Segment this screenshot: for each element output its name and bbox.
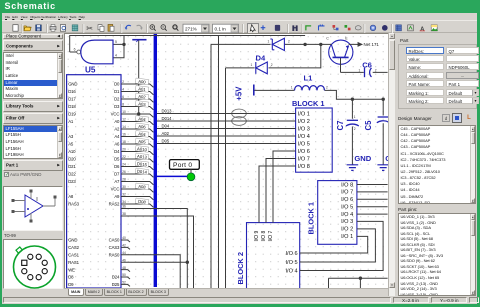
svg-text:48: 48 — [122, 266, 126, 270]
svg-text:D23: D23 — [68, 179, 76, 184]
svg-text:RAS2: RAS2 — [109, 202, 120, 207]
svg-text:BLOCK 1: BLOCK 1 — [292, 99, 324, 108]
svg-text:D22: D22 — [68, 172, 76, 177]
svg-text:2: 2 — [122, 80, 124, 84]
svg-text:CAS0: CAS0 — [109, 238, 120, 243]
svg-text:CAS1: CAS1 — [68, 253, 79, 258]
svg-text:10: 10 — [122, 110, 126, 114]
svg-text:6: 6 — [74, 47, 76, 51]
svg-text:D013: D013 — [162, 108, 173, 113]
svg-text:D3: D3 — [114, 104, 120, 109]
svg-text:2: 2 — [354, 127, 356, 131]
svg-text:A02: A02 — [162, 131, 170, 136]
svg-text:D18: D18 — [68, 104, 76, 109]
svg-text:I/O 9: I/O 9 — [254, 230, 260, 241]
svg-text:2: 2 — [326, 86, 328, 90]
svg-text:U5: U5 — [85, 66, 96, 75]
svg-text:36: 36 — [122, 205, 126, 209]
svg-text:A0: A0 — [114, 119, 120, 124]
svg-text:VCC: VCC — [111, 112, 120, 117]
svg-text:D16: D16 — [68, 89, 76, 94]
svg-text:D08: D08 — [138, 199, 147, 205]
svg-text:42: 42 — [122, 244, 126, 248]
svg-text:RAS0: RAS0 — [109, 253, 120, 258]
svg-text:40: 40 — [122, 236, 126, 240]
svg-text:I/O 2: I/O 2 — [341, 227, 353, 233]
svg-text:C6: C6 — [362, 61, 372, 70]
svg-text:1: 1 — [291, 86, 293, 90]
svg-text:16: 16 — [122, 133, 126, 137]
svg-text:32: 32 — [122, 193, 126, 197]
svg-text:C7: C7 — [336, 121, 345, 131]
svg-text:0.1 in: 0.1 in — [215, 26, 227, 31]
svg-text:✂: ✂ — [86, 24, 93, 33]
svg-text:D014: D014 — [162, 116, 173, 121]
svg-text:+5V: +5V — [235, 86, 244, 101]
svg-text:A3: A3 — [68, 134, 74, 139]
svg-text:5: 5 — [115, 40, 117, 44]
svg-text:8: 8 — [122, 103, 124, 107]
svg-text:D4: D4 — [114, 149, 120, 154]
svg-text:Port 0: Port 0 — [173, 162, 192, 169]
svg-text:D0: D0 — [114, 82, 120, 87]
svg-text:A06: A06 — [138, 124, 147, 130]
svg-text:C: C — [326, 37, 329, 41]
svg-text:I/O 4: I/O 4 — [285, 268, 297, 274]
svg-text:1: 1 — [251, 63, 253, 67]
svg-text:1: 1 — [354, 115, 356, 119]
svg-text:28: 28 — [122, 178, 126, 182]
svg-text:I/O 8: I/O 8 — [261, 230, 267, 241]
svg-text:A01: A01 — [138, 86, 147, 92]
svg-text:22: 22 — [122, 155, 126, 159]
svg-text:D17: D17 — [68, 97, 76, 102]
svg-text:2: 2 — [375, 69, 377, 73]
svg-text:50: 50 — [122, 273, 126, 277]
svg-text:24: 24 — [122, 163, 126, 167]
svg-text:D1: D1 — [114, 89, 120, 94]
svg-text:271%: 271% — [185, 26, 197, 31]
svg-text:A6: A6 — [114, 142, 120, 147]
svg-text:I/O 7: I/O 7 — [298, 156, 310, 162]
svg-text:38: 38 — [122, 212, 126, 216]
svg-text:GND: GND — [68, 238, 77, 243]
svg-text:CAS3: CAS3 — [109, 245, 120, 250]
svg-text:I/O 5: I/O 5 — [341, 205, 353, 211]
svg-text:4: 4 — [115, 54, 117, 58]
svg-text:I/O 6: I/O 6 — [298, 149, 310, 155]
svg-text:I/O 7: I/O 7 — [341, 190, 353, 196]
svg-text:46: 46 — [122, 258, 126, 262]
svg-text:12: 12 — [122, 118, 126, 122]
svg-text:A9: A9 — [114, 194, 120, 199]
svg-text:D5: D5 — [114, 157, 120, 162]
svg-text:A7: A7 — [114, 179, 120, 184]
svg-text:I/O 5: I/O 5 — [298, 141, 310, 147]
svg-text:A02: A02 — [138, 94, 147, 100]
svg-text:A05: A05 — [138, 139, 147, 145]
svg-text:1: 1 — [359, 69, 361, 73]
svg-text:D19: D19 — [68, 112, 76, 117]
svg-text:A5: A5 — [68, 142, 74, 147]
svg-text:I/O 6: I/O 6 — [341, 197, 353, 203]
svg-text:A8: A8 — [68, 194, 74, 199]
svg-text:4: 4 — [122, 88, 124, 92]
svg-text:1: 1 — [268, 40, 270, 44]
svg-text:VCC: VCC — [111, 187, 120, 192]
svg-text:2: 2 — [271, 63, 273, 67]
svg-text:A10: A10 — [68, 149, 76, 154]
svg-text:I/O 4: I/O 4 — [341, 212, 353, 218]
svg-text:A: A — [420, 26, 424, 32]
svg-text:I/O 3: I/O 3 — [341, 219, 353, 225]
svg-text:C5: C5 — [364, 120, 373, 131]
svg-text:A00: A00 — [138, 79, 147, 85]
svg-text:14: 14 — [122, 125, 126, 129]
svg-text:2: 2 — [288, 40, 290, 44]
svg-text:I/O 8: I/O 8 — [341, 182, 353, 188]
svg-text:A4: A4 — [114, 134, 120, 139]
svg-text:D20: D20 — [68, 157, 76, 162]
svg-text:A1: A1 — [68, 119, 74, 124]
svg-text:A2: A2 — [114, 127, 120, 132]
svg-text:D04: D04 — [162, 123, 170, 128]
svg-text:RAS1: RAS1 — [68, 260, 79, 265]
svg-text:34: 34 — [122, 200, 126, 204]
svg-text:I/O 1: I/O 1 — [341, 234, 353, 240]
svg-text:WE: WE — [68, 267, 75, 272]
svg-text:I/O 4: I/O 4 — [298, 134, 310, 140]
svg-text:I/O 1: I/O 1 — [298, 111, 310, 117]
svg-text:BLOCK 2: BLOCK 2 — [236, 252, 245, 284]
svg-text:D21: D21 — [68, 164, 76, 169]
svg-text:L1: L1 — [304, 73, 314, 82]
svg-text:RAS3: RAS3 — [68, 202, 79, 207]
svg-text:A04: A04 — [138, 131, 147, 137]
svg-text:D25: D25 — [112, 282, 120, 287]
svg-text:I/O 2: I/O 2 — [298, 119, 310, 125]
svg-text:GND: GND — [68, 82, 77, 87]
svg-text:52: 52 — [122, 281, 126, 285]
svg-text:I/O 8: I/O 8 — [298, 164, 310, 170]
svg-text:Net 171: Net 171 — [364, 42, 380, 47]
svg-text:I/O 3: I/O 3 — [298, 126, 310, 132]
svg-text:D7: D7 — [114, 172, 120, 177]
svg-text:D2: D2 — [114, 97, 120, 102]
svg-text:I/O 7: I/O 7 — [268, 230, 274, 241]
svg-text:44: 44 — [122, 251, 126, 255]
svg-text:18: 18 — [122, 140, 126, 144]
svg-text:I/O 6: I/O 6 — [285, 251, 297, 257]
svg-text:I/O 5: I/O 5 — [285, 260, 297, 266]
svg-text:D05: D05 — [162, 138, 170, 143]
svg-text:A03: A03 — [138, 101, 147, 107]
svg-text:6: 6 — [122, 95, 124, 99]
svg-text:30: 30 — [122, 185, 126, 189]
svg-text:D9: D9 — [68, 282, 74, 287]
svg-text:CAS2: CAS2 — [68, 245, 79, 250]
svg-text:20: 20 — [122, 148, 126, 152]
svg-text:A08: A08 — [138, 184, 147, 190]
svg-text:BLOCK 1: BLOCK 1 — [307, 202, 316, 234]
svg-text:D6: D6 — [114, 164, 120, 169]
svg-text:D8: D8 — [68, 275, 74, 280]
svg-text:D24: D24 — [112, 275, 120, 280]
svg-text:A04: A04 — [138, 116, 147, 122]
svg-text:GND: GND — [354, 154, 371, 163]
svg-text:D4: D4 — [256, 53, 266, 62]
svg-text:26: 26 — [122, 170, 126, 174]
